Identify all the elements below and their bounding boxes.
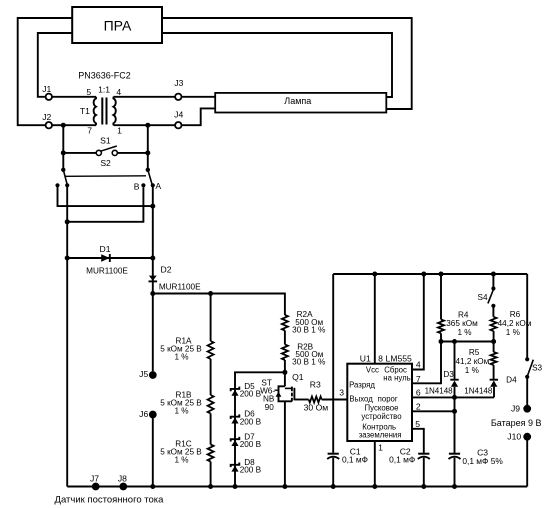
svg-text:Выход: Выход — [349, 395, 373, 404]
ground rail / current sense bottom rail — [67, 486, 527, 488]
svg-text:7: 7 — [416, 374, 421, 384]
svg-text:Батарея 9 В: Батарея 9 В — [491, 418, 542, 428]
svg-text:порог: порог — [378, 395, 398, 404]
svg-text:устройство: устройство — [361, 412, 402, 421]
junction C1 rail — [331, 484, 336, 489]
svg-text:J6: J6 — [139, 409, 148, 419]
wire U1 pin 1 to ground rail — [374, 441, 376, 487]
svg-text:R6: R6 — [510, 310, 521, 319]
resistor R2B 500 Ohm 30V 1% — [282, 345, 288, 361]
wire R4 to junction row — [440, 333, 442, 341]
junction A rail — [150, 204, 155, 209]
wire U1 pin 2 to C3 riser — [412, 410, 455, 412]
svg-text:R5: R5 — [469, 348, 480, 357]
capacitor C3 0.1uF 5% — [449, 453, 460, 455]
wire zener chain top — [235, 372, 285, 486]
junction C3 rail — [452, 484, 457, 489]
switch S3 — [525, 357, 529, 361]
svg-text:30 Ом: 30 Ом — [304, 402, 329, 412]
resistor R1A 5 kOhm 25V 1% — [210, 294, 212, 342]
terminal J8 — [119, 483, 127, 491]
wire T1 pin 4 to J3 — [113, 96, 175, 98]
junction pin1 rail — [372, 484, 377, 489]
zener D5 200V — [231, 387, 240, 392]
svg-text:7: 7 — [87, 126, 92, 136]
svg-text:30 В 1 %: 30 В 1 % — [292, 358, 325, 367]
resistor R3 30 Ohm — [309, 397, 322, 403]
transformer T1 secondary winding — [113, 97, 115, 125]
wire Vcc rail to S3 — [526, 274, 528, 359]
junction R1 chain top — [208, 291, 213, 296]
svg-text:MUR1100E: MUR1100E — [86, 266, 128, 275]
svg-text:Разряд: Разряд — [349, 381, 375, 390]
wire J3 to lamp left upper pin — [182, 96, 216, 98]
svg-text:на нуль: на нуль — [383, 374, 410, 383]
svg-text:5: 5 — [86, 87, 91, 97]
svg-text:D2: D2 — [161, 265, 172, 275]
svg-text:J10: J10 — [507, 432, 521, 442]
resistor R1C 5 kOhm 25V 1% — [208, 445, 214, 462]
wire D1 row — [67, 257, 153, 259]
svg-text:J2: J2 — [42, 112, 51, 122]
wire ПРА right outer to lamp lower right pin — [162, 18, 412, 109]
svg-text:J3: J3 — [174, 78, 183, 88]
ballast box ПРА — [72, 7, 162, 43]
svg-text:1 %: 1 % — [465, 366, 479, 375]
wire T1 pin 1 to J4 — [113, 124, 175, 126]
svg-text:1:1: 1:1 — [98, 84, 110, 94]
transformer T1 primary winding — [94, 97, 96, 125]
junction D3 pin6 — [452, 395, 457, 400]
svg-text:Лампа: Лампа — [284, 96, 311, 106]
wire down-left to S1/S2 — [62, 125, 64, 170]
svg-text:PN3636-FC2: PN3636-FC2 — [78, 71, 131, 81]
wire J10 to bottom rail — [526, 437, 528, 487]
wire Q1 gate to R3 — [294, 399, 308, 401]
diode D3 1N4148 — [450, 379, 458, 381]
svg-text:1 %: 1 % — [457, 328, 471, 337]
wire R2B to Q1 drain — [284, 360, 286, 386]
junction on pin1 wire — [145, 123, 150, 128]
svg-text:J7: J7 — [90, 474, 99, 484]
wire J6 down to bottom rail — [152, 417, 154, 487]
terminal J10 — [523, 433, 531, 441]
svg-text:1 %: 1 % — [174, 352, 188, 361]
wire R2A to R2B — [284, 331, 286, 345]
wire J1 to T1 pin 5 — [52, 96, 96, 98]
wire D2 node down to J5 — [152, 294, 154, 372]
svg-text:0,1 мФ 5%: 0,1 мФ 5% — [462, 456, 503, 466]
terminal J5 — [149, 371, 157, 379]
wire R1A to R1B — [210, 359, 212, 395]
junction Q1 drain node — [282, 370, 287, 375]
svg-text:0,1 мФ: 0,1 мФ — [342, 455, 368, 465]
svg-text:1N4148: 1N4148 — [425, 386, 454, 395]
wire ПРА left inner to J1 — [38, 33, 72, 97]
wire U1 pin 6 row to D3 D4 — [412, 396, 494, 398]
connector J2 — [46, 122, 52, 128]
svg-text:4: 4 — [116, 87, 121, 97]
svg-text:6: 6 — [416, 388, 421, 398]
resistor R2A 500 Ohm 30V 1% — [282, 315, 288, 331]
resistor R4 365 kOhm 1% — [440, 274, 442, 320]
svg-text:S1: S1 — [100, 135, 111, 145]
junction R1C rail — [208, 484, 213, 489]
svg-text:J4: J4 — [174, 109, 183, 119]
svg-text:4: 4 — [416, 359, 421, 369]
terminal J7 — [92, 483, 100, 491]
terminal J6 — [149, 411, 157, 419]
svg-text:D4: D4 — [506, 375, 517, 384]
svg-text:41,2 кОм: 41,2 кОм — [456, 357, 490, 366]
zener D6 200V — [231, 414, 240, 419]
switch S2 (DPDT) — [61, 168, 65, 172]
wire R5 to D4 — [493, 365, 495, 380]
wire left rail down from S2 throw2 — [66, 185, 68, 486]
wire C1 to bottom rail — [332, 458, 334, 487]
svg-text:T1: T1 — [80, 106, 90, 116]
svg-text:S4: S4 — [477, 293, 487, 302]
svg-text:S3: S3 — [532, 364, 542, 373]
wire D4 to pin 6 row — [493, 387, 495, 398]
wire cross-link to node B — [67, 187, 143, 222]
zener D8 200V — [231, 463, 240, 468]
transformer T1 core — [101, 98, 103, 125]
wire ПРА right inner to lamp upper right pin — [162, 33, 392, 97]
svg-text:1: 1 — [378, 442, 383, 452]
wire C2 to bottom rail — [423, 458, 425, 487]
wire C3 to bottom rail — [454, 458, 456, 487]
junction Q1 source rail — [282, 484, 287, 489]
wire J4 to lamp left lower pin — [182, 108, 216, 125]
wire S3 to J9 — [526, 377, 528, 409]
svg-text:LM555: LM555 — [386, 353, 412, 363]
wire D2 node to R2A — [153, 294, 285, 316]
svg-text:J8: J8 — [118, 474, 127, 484]
connector J4 — [175, 122, 181, 128]
svg-text:B: B — [134, 181, 140, 191]
junction pin2 C3 riser — [452, 409, 457, 414]
diode D2 MUR1100E — [149, 276, 157, 281]
wire down-right to S1/S2 — [147, 125, 149, 170]
capacitor C1 0.1uF — [328, 453, 339, 455]
svg-text:D1: D1 — [100, 244, 111, 254]
svg-text:J1: J1 — [42, 84, 51, 94]
svg-text:A: A — [155, 181, 161, 191]
svg-text:Датчик постоянного тока: Датчик постоянного тока — [55, 494, 165, 505]
junction J6 rail — [150, 484, 155, 489]
junction C2 rail — [421, 484, 426, 489]
svg-text:1 %: 1 % — [506, 328, 520, 337]
junction left rail — [65, 219, 70, 224]
svg-text:365 кОм: 365 кОм — [446, 319, 478, 328]
svg-text:Q1: Q1 — [292, 372, 304, 382]
wire S4 to R6 — [492, 306, 494, 317]
svg-text:200 В: 200 В — [240, 465, 262, 474]
svg-text:MUR1100E: MUR1100E — [159, 282, 201, 291]
op-amp U1 LM555 timer box — [347, 364, 412, 441]
wire U1 pin 7 to R4 bottom — [412, 342, 441, 384]
capacitor C2 0.1uF — [418, 453, 429, 455]
resistor R5 41.2 kOhm 1% — [493, 342, 495, 353]
wire S2 left throw1 to A rail — [58, 185, 153, 206]
wire U1 pin 5 to C2 — [412, 429, 424, 453]
switch S4 — [492, 274, 494, 289]
wire R3 to U1 pin 3 — [322, 399, 348, 401]
wire U1 pin 4 to Vcc rail — [412, 274, 424, 370]
svg-text:U1: U1 — [360, 353, 371, 363]
connector J3 — [175, 94, 181, 100]
resistor R6 44.2 kOhm 1% — [491, 317, 497, 331]
wire right rail A to D2 node — [152, 185, 154, 293]
svg-text:J9: J9 — [511, 404, 520, 414]
svg-text:3: 3 — [339, 387, 344, 397]
svg-text:ПРА: ПРА — [104, 18, 132, 34]
wire R1B to R1C — [210, 414, 212, 445]
junction on pin7 wire — [61, 123, 66, 128]
svg-text:5: 5 — [415, 419, 420, 429]
wire Q1 source to bottom rail — [284, 401, 286, 486]
svg-text:заземления: заземления — [359, 430, 402, 439]
Vcc rail — [333, 273, 527, 275]
wire R1C to bottom rail — [210, 462, 212, 487]
svg-text:200 В: 200 В — [240, 440, 262, 449]
junction row R4 D3 R5 — [441, 341, 494, 343]
svg-text:R4: R4 — [458, 310, 469, 319]
svg-text:2: 2 — [416, 402, 421, 412]
terminal J9 — [523, 405, 531, 413]
svg-text:200 В: 200 В — [240, 389, 262, 398]
diode D4 1N4148 — [490, 379, 498, 381]
svg-text:8: 8 — [378, 353, 383, 363]
svg-text:200 В: 200 В — [240, 417, 262, 426]
svg-text:0,1 мФ: 0,1 мФ — [389, 455, 415, 465]
zener D7 200V — [231, 437, 240, 442]
wire R6 to junction row — [493, 331, 495, 342]
lamp box Лампа — [215, 93, 386, 113]
svg-text:1: 1 — [117, 126, 122, 136]
svg-text:1N4148: 1N4148 — [464, 386, 493, 395]
wire D3 branch from junction row — [454, 342, 456, 380]
switch S1 — [63, 152, 96, 154]
resistor R1B 5 kOhm 25V 1% — [208, 395, 214, 414]
svg-text:1 %: 1 % — [174, 406, 188, 415]
svg-text:D3: D3 — [443, 370, 454, 379]
svg-text:Vcc: Vcc — [366, 366, 379, 375]
svg-text:S2: S2 — [100, 158, 111, 168]
svg-text:1 %: 1 % — [174, 456, 188, 465]
diode D1 MUR1100E — [101, 254, 110, 261]
wire Vcc rail to C1 — [332, 274, 334, 453]
svg-text:30 В 1 %: 30 В 1 % — [292, 325, 325, 334]
wire ПРА left outer to J2 — [18, 18, 72, 125]
wire J2 to T1 pin 7 — [52, 124, 96, 126]
wire D3 down through pin6 and pin2 to C3 — [454, 387, 456, 453]
svg-text:R3: R3 — [310, 380, 321, 390]
wire U1 pin 8 riser to Vcc rail — [374, 274, 376, 364]
node under D2 — [150, 291, 155, 296]
junction zener chain rail — [233, 484, 238, 489]
svg-text:J5: J5 — [139, 369, 148, 379]
connector J1 — [46, 94, 52, 100]
svg-text:90: 90 — [265, 403, 275, 412]
